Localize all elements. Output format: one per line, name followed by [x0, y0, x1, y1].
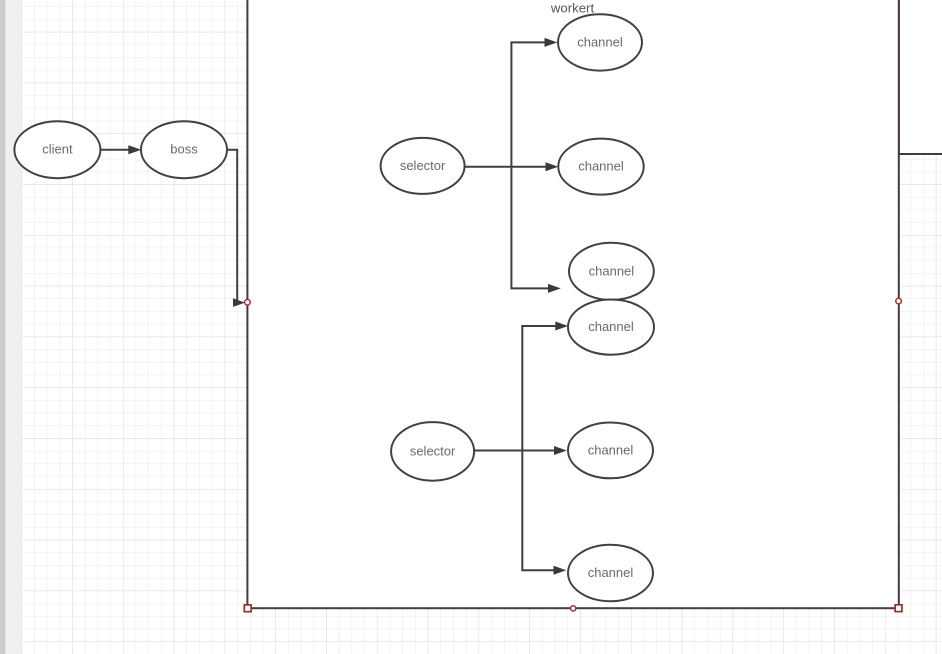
wire selector1-channel1c [511, 167, 549, 289]
node channel2b [568, 423, 653, 479]
arrowhead selector2-channel2b [554, 446, 567, 455]
svg-text:channel: channel [577, 34, 623, 49]
container box (right, partially off-screen) [899, 0, 942, 154]
container workert box [247, 0, 898, 608]
handle mid-right circle [896, 298, 902, 304]
svg-text:channel: channel [578, 159, 624, 174]
arrowhead selector1-channel1c [548, 284, 561, 293]
handle bottom-mid circle [571, 606, 576, 611]
svg-text:channel: channel [588, 565, 634, 580]
handle bottom-left square [244, 605, 251, 612]
left page margin [0, 0, 22, 654]
node channel1a [558, 14, 642, 70]
wire selector2-channel2a [522, 326, 556, 451]
arrowhead selector1-channel1b [546, 162, 559, 171]
node client [14, 121, 100, 178]
wire selector1-channel1a [511, 42, 545, 166]
svg-text:client: client [42, 142, 73, 157]
arrowhead selector2-channel2c [554, 566, 567, 575]
wire selector2-channel2c [522, 451, 554, 571]
svg-text:selector: selector [400, 158, 446, 173]
arrowhead selector1-channel1a [545, 38, 558, 47]
node channel2c [568, 545, 653, 601]
wire boss-workert [227, 150, 237, 303]
node channel2a [568, 300, 654, 355]
wire client-boss [100, 149, 129, 151]
svg-text:channel: channel [588, 319, 634, 334]
node boss [141, 121, 227, 178]
node selector1 [381, 138, 465, 194]
svg-text:selector: selector [410, 443, 456, 458]
svg-text:boss: boss [170, 142, 198, 157]
wire selector1-channel1b [465, 166, 547, 168]
arrowhead client-boss [128, 145, 141, 154]
handle bottom-right square [895, 605, 902, 612]
left scrollbar strip [0, 0, 5, 654]
wire selector2-channel2b [474, 450, 555, 452]
svg-text:channel: channel [589, 263, 635, 278]
node selector2 [391, 422, 474, 481]
svg-text:channel: channel [588, 442, 634, 457]
handle mid-left circle [245, 300, 251, 306]
arrowhead boss-workert [233, 298, 245, 307]
node channel1b [558, 139, 643, 195]
arrowhead selector2-channel2a [555, 322, 568, 331]
node channel1c [569, 243, 654, 300]
svg-text:workert: workert [550, 0, 595, 15]
